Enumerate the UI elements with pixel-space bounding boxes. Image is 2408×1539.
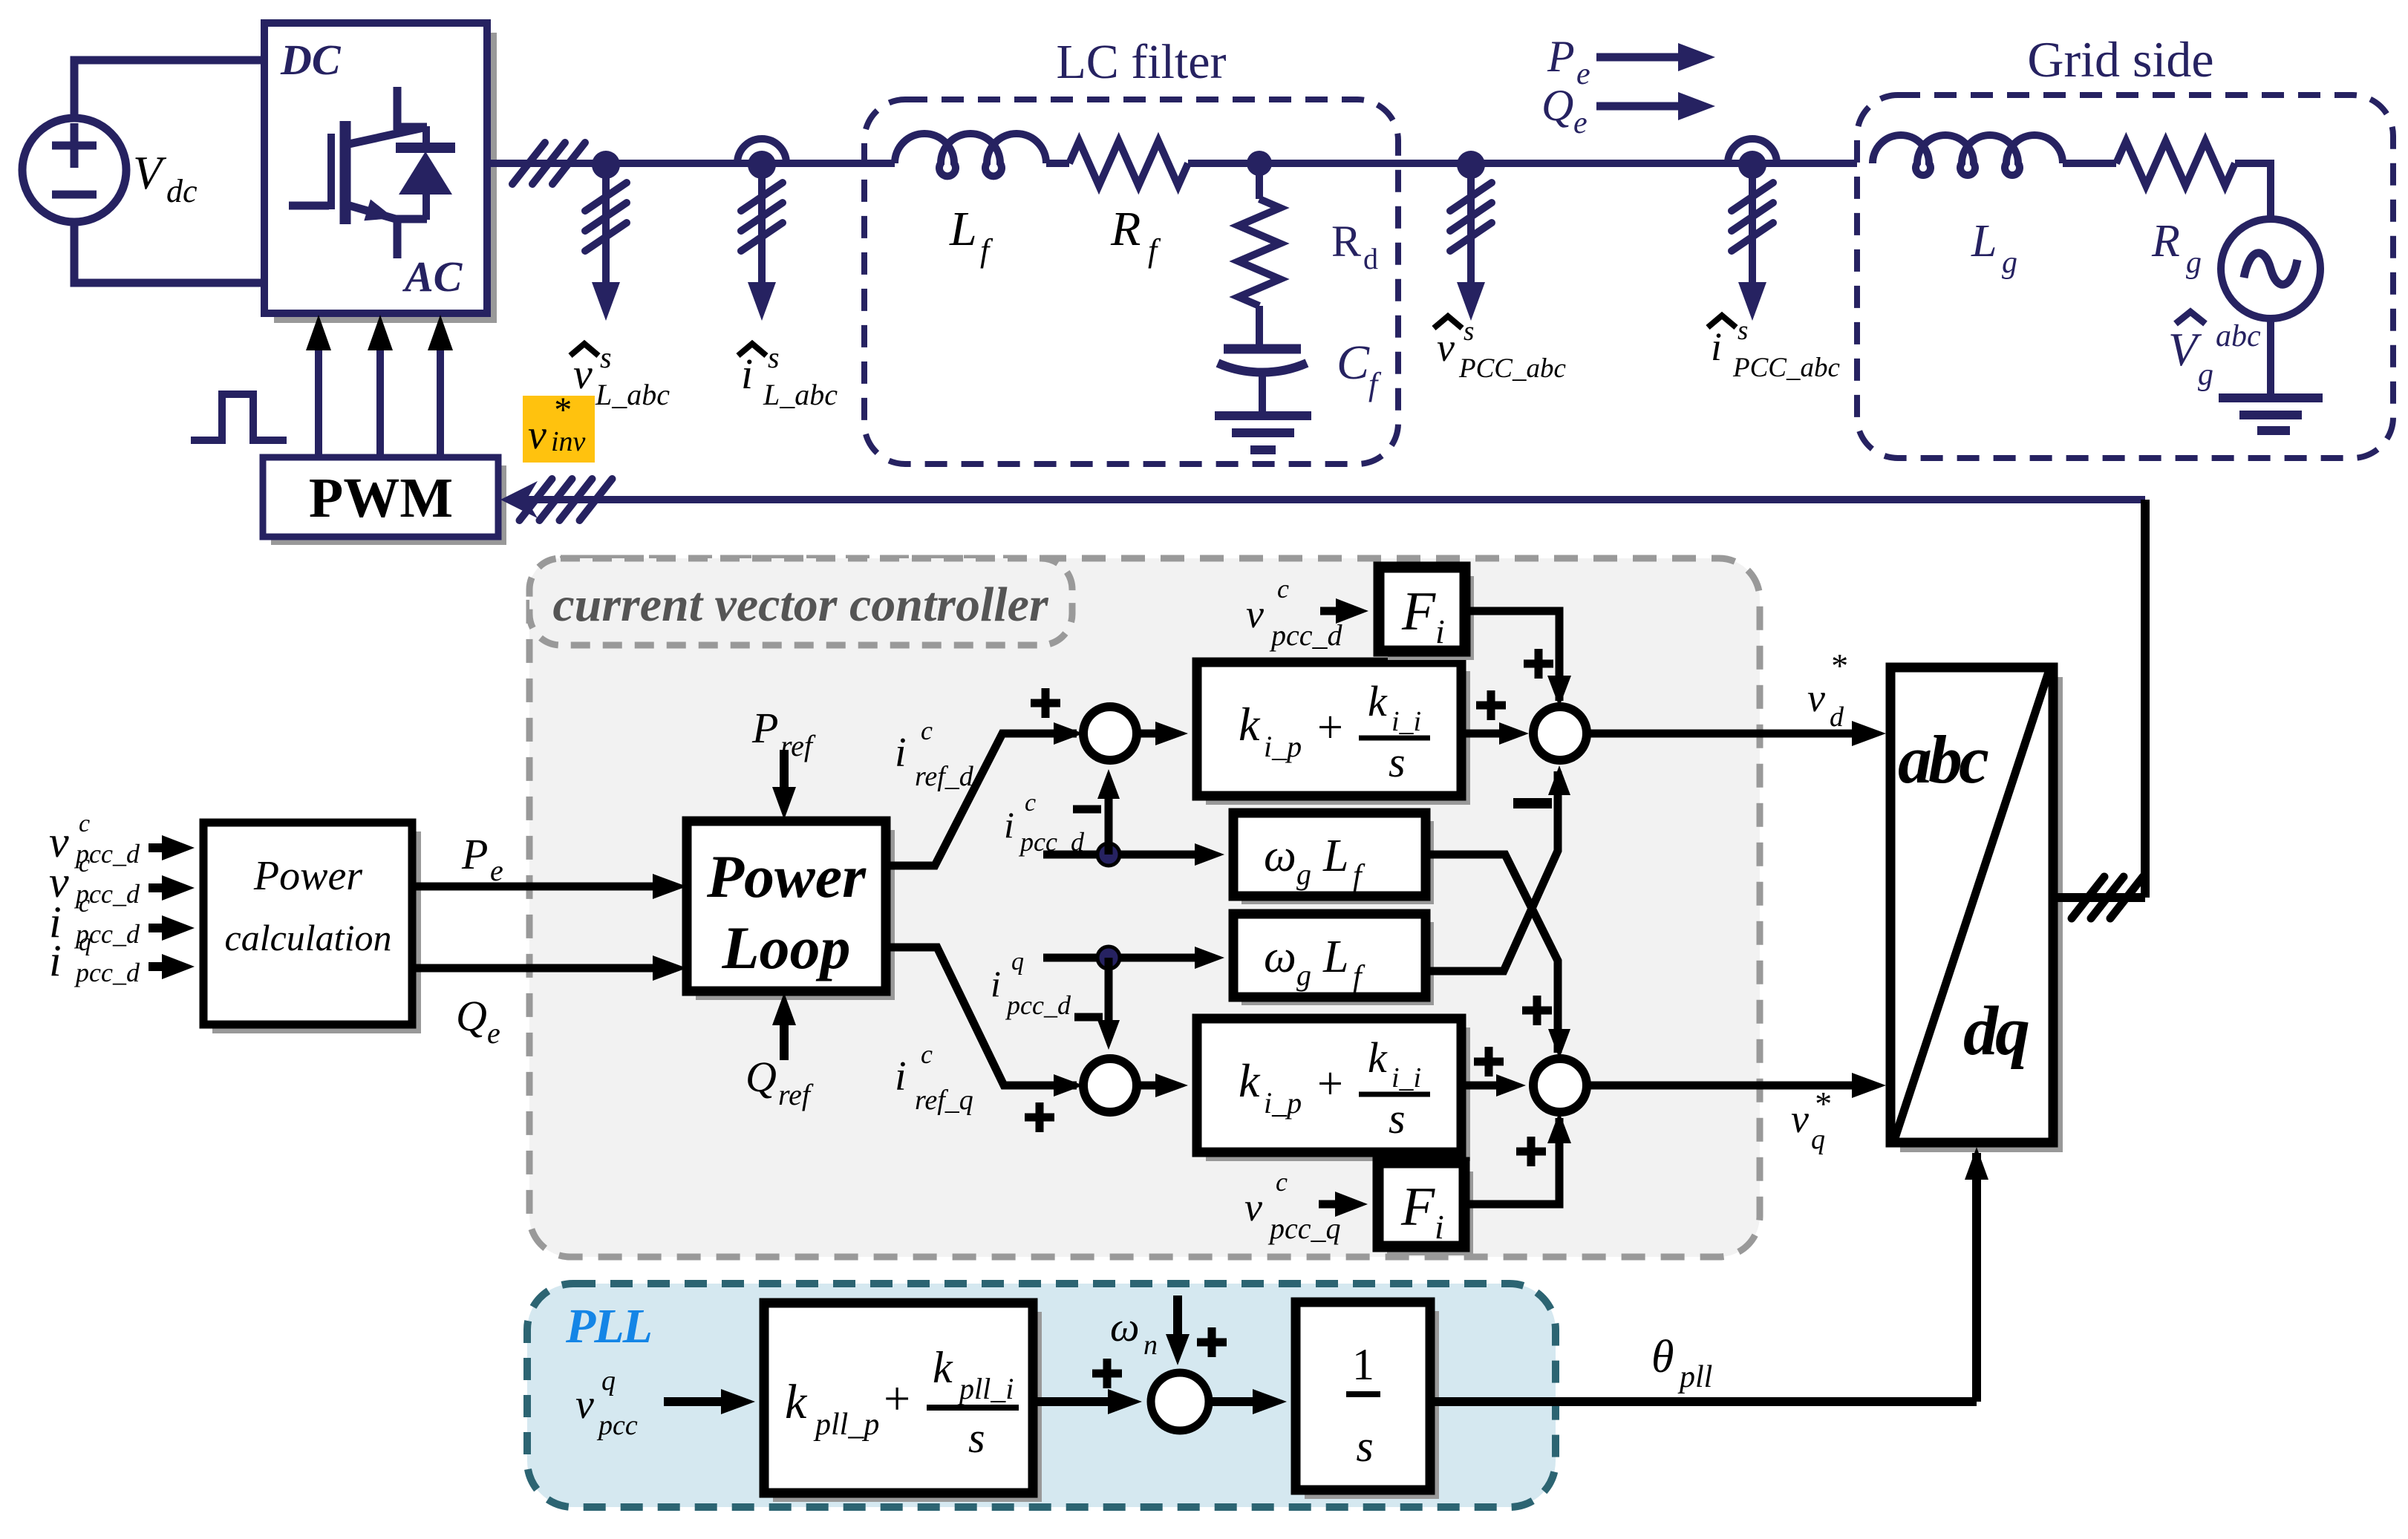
svg-text:c: c xyxy=(1025,789,1036,817)
svg-text:L_abc: L_abc xyxy=(763,378,838,411)
svg-text:i: i xyxy=(741,350,753,398)
svg-text:pcc_d: pcc_d xyxy=(74,958,140,987)
svg-text:R: R xyxy=(1331,217,1361,266)
svg-text:i_i: i_i xyxy=(1391,706,1421,737)
svg-text:v: v xyxy=(1246,592,1264,636)
svg-text:*: * xyxy=(552,391,570,430)
svg-text:ref_d: ref_d xyxy=(915,761,974,792)
svg-text:PLL: PLL xyxy=(565,1299,651,1353)
svg-text:s: s xyxy=(1389,1094,1406,1143)
svg-text:i: i xyxy=(1004,804,1014,846)
svg-text:i_p: i_p xyxy=(1264,730,1302,763)
svg-text:L_abc: L_abc xyxy=(595,378,670,411)
svg-text:c: c xyxy=(921,716,933,745)
svg-text:1: 1 xyxy=(1352,1340,1374,1389)
svg-text:k: k xyxy=(1368,677,1388,725)
svg-text:q: q xyxy=(79,929,91,956)
svg-text:inv: inv xyxy=(551,426,586,457)
svg-text:calculation: calculation xyxy=(225,917,392,958)
svg-text:i: i xyxy=(1435,1208,1444,1246)
svg-text:P: P xyxy=(461,830,488,878)
svg-text:c: c xyxy=(79,810,90,837)
svg-text:k: k xyxy=(1239,698,1261,751)
svg-text:i_i: i_i xyxy=(1391,1062,1421,1094)
svg-text:L: L xyxy=(1971,216,1997,267)
svg-text:ref_q: ref_q xyxy=(915,1085,973,1116)
svg-text:P: P xyxy=(751,704,778,752)
svg-text:F: F xyxy=(1401,581,1436,642)
svg-text:i: i xyxy=(49,936,62,985)
svg-text:s: s xyxy=(768,341,780,374)
svg-text:Q: Q xyxy=(745,1053,777,1101)
svg-text:k: k xyxy=(1368,1033,1388,1082)
svg-text:*: * xyxy=(1830,647,1847,684)
svg-text:i: i xyxy=(991,963,1001,1004)
svg-text:c: c xyxy=(79,850,90,878)
svg-text:+: + xyxy=(881,1372,913,1425)
svg-text:pll_i: pll_i xyxy=(957,1372,1014,1405)
svg-text:v: v xyxy=(1244,1185,1262,1229)
svg-text:i_p: i_p xyxy=(1264,1086,1302,1120)
svg-text:θ: θ xyxy=(1651,1332,1674,1382)
svg-text:abc: abc xyxy=(2216,319,2261,353)
svg-text:pll: pll xyxy=(1677,1360,1712,1394)
svg-text:pcc_q: pcc_q xyxy=(1267,1212,1341,1245)
svg-text:i: i xyxy=(895,730,907,776)
svg-text:ω: ω xyxy=(1264,831,1296,881)
svg-text:ω: ω xyxy=(1264,932,1296,982)
svg-text:pll_p: pll_p xyxy=(813,1408,879,1442)
svg-text:R: R xyxy=(1110,202,1141,256)
svg-text:PCC_abc: PCC_abc xyxy=(1458,353,1566,384)
svg-text:v: v xyxy=(528,412,546,458)
svg-text:v: v xyxy=(1807,676,1825,720)
svg-text:R: R xyxy=(2151,216,2180,267)
svg-text:s: s xyxy=(600,341,612,374)
svg-text:abc: abc xyxy=(1898,722,1988,797)
svg-text:i: i xyxy=(1711,324,1722,369)
svg-text:LC filter: LC filter xyxy=(1056,35,1226,89)
svg-text:Power: Power xyxy=(253,853,362,899)
svg-text:i: i xyxy=(895,1053,907,1099)
svg-text:s: s xyxy=(1389,738,1406,786)
svg-text:*: * xyxy=(1813,1085,1830,1123)
svg-text:AC: AC xyxy=(402,252,463,301)
svg-text:ω: ω xyxy=(1110,1304,1140,1350)
svg-text:F: F xyxy=(1400,1177,1435,1238)
svg-text:ref: ref xyxy=(778,1078,814,1111)
svg-text:Grid side: Grid side xyxy=(2027,31,2213,88)
svg-text:dc: dc xyxy=(166,173,198,209)
svg-text:current vector controller: current vector controller xyxy=(552,578,1049,632)
svg-text:s: s xyxy=(1464,316,1474,347)
svg-text:dq: dq xyxy=(1963,993,2029,1070)
svg-text:c: c xyxy=(921,1039,933,1069)
svg-text:s: s xyxy=(1738,316,1748,346)
svg-text:q: q xyxy=(601,1365,616,1396)
svg-text:i: i xyxy=(1435,612,1445,650)
svg-text:n: n xyxy=(1143,1330,1158,1361)
svg-text:g: g xyxy=(2198,358,2213,392)
svg-text:pcc_d: pcc_d xyxy=(1018,827,1085,857)
svg-text:+: + xyxy=(1314,702,1345,753)
svg-text:P: P xyxy=(1547,32,1575,81)
svg-text:L: L xyxy=(1322,831,1348,881)
svg-text:L: L xyxy=(949,202,977,256)
svg-text:Q: Q xyxy=(456,992,487,1040)
svg-text:C: C xyxy=(1337,336,1370,390)
svg-text:v: v xyxy=(573,350,593,398)
svg-text:v: v xyxy=(1791,1097,1809,1141)
svg-text:q: q xyxy=(1011,948,1024,976)
svg-text:PCC_abc: PCC_abc xyxy=(1732,353,1840,383)
svg-text:v: v xyxy=(575,1382,594,1428)
svg-text:DC: DC xyxy=(280,36,342,84)
svg-text:pcc_d: pcc_d xyxy=(1269,618,1343,652)
svg-text:s: s xyxy=(1356,1422,1373,1471)
svg-text:g: g xyxy=(1296,857,1311,891)
svg-text:d: d xyxy=(1830,702,1844,733)
svg-text:e: e xyxy=(487,1016,500,1050)
svg-text:k: k xyxy=(933,1343,953,1392)
svg-text:c: c xyxy=(1277,574,1289,604)
svg-text:q: q xyxy=(1811,1124,1825,1155)
svg-text:Loop: Loop xyxy=(721,914,850,981)
svg-text:c: c xyxy=(1276,1167,1288,1197)
svg-text:+: + xyxy=(1314,1059,1345,1109)
svg-text:k: k xyxy=(785,1375,808,1429)
svg-text:e: e xyxy=(1573,106,1588,140)
svg-text:c: c xyxy=(79,890,90,918)
svg-text:v: v xyxy=(1437,325,1455,370)
svg-text:pcc_d: pcc_d xyxy=(1005,990,1071,1020)
svg-text:g: g xyxy=(1296,958,1311,992)
svg-text:g: g xyxy=(2002,246,2017,280)
svg-text:PWM: PWM xyxy=(309,467,453,529)
svg-text:e: e xyxy=(490,854,503,887)
svg-text:s: s xyxy=(968,1414,985,1462)
svg-text:pcc: pcc xyxy=(596,1410,638,1441)
svg-text:e: e xyxy=(1576,57,1590,91)
svg-text:g: g xyxy=(2186,246,2202,280)
svg-text:Q: Q xyxy=(1541,81,1573,130)
svg-text:d: d xyxy=(1363,242,1378,275)
svg-text:L: L xyxy=(1322,932,1348,982)
svg-text:k: k xyxy=(1239,1054,1261,1107)
svg-text:Power: Power xyxy=(706,843,867,910)
